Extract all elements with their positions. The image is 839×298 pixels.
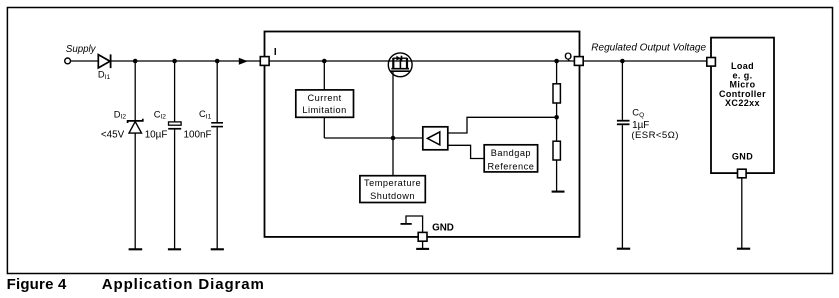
svg-text:Temperature: Temperature (364, 178, 421, 188)
svg-text:(ESR<5Ω): (ESR<5Ω) (631, 130, 678, 141)
svg-text:Limitation: Limitation (302, 105, 346, 115)
svg-text:Application Diagram: Application Diagram (102, 276, 265, 293)
svg-text:<45V: <45V (101, 130, 125, 141)
svg-text:CI2: CI2 (154, 108, 167, 120)
svg-text:DI2: DI2 (114, 108, 127, 120)
svg-text:Supply: Supply (66, 44, 97, 55)
svg-text:Reference: Reference (487, 162, 534, 172)
svg-text:GND: GND (432, 222, 454, 233)
svg-text:DI1: DI1 (98, 69, 111, 81)
svg-text:Current: Current (308, 93, 342, 103)
svg-text:GND: GND (732, 152, 753, 162)
svg-text:Regulated Output Voltage: Regulated Output Voltage (591, 43, 706, 54)
svg-text:10µF: 10µF (145, 130, 168, 141)
svg-text:Bandgap: Bandgap (491, 148, 531, 158)
svg-text:Q: Q (564, 52, 572, 63)
svg-text:XC22xx: XC22xx (725, 98, 760, 108)
svg-text:I: I (274, 47, 277, 58)
svg-text:CQ: CQ (632, 107, 644, 119)
svg-text:CI1: CI1 (199, 108, 212, 120)
svg-text:Figure 4: Figure 4 (7, 276, 67, 293)
svg-text:Shutdown: Shutdown (370, 191, 415, 201)
svg-text:100nF: 100nF (184, 129, 212, 140)
